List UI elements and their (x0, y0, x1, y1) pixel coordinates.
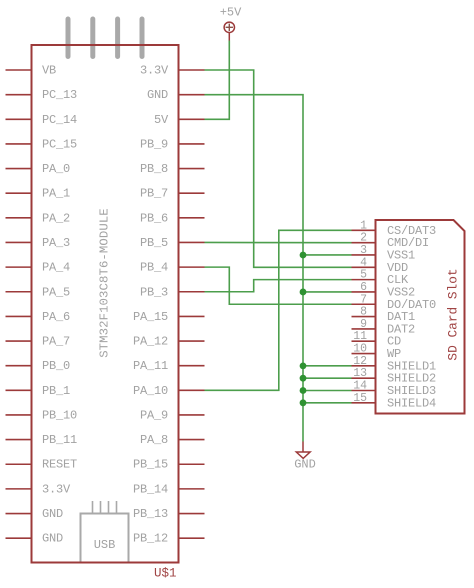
pin PB_3 (right 10) (140, 285, 205, 299)
pin PA_1 (left 6) (6, 187, 71, 201)
SD pin 15 SHIELD4 (352, 392, 437, 411)
SD pin 9 DAT2 (352, 318, 416, 337)
svg-text:5V: 5V (154, 113, 169, 127)
wire net 3.3V: module 3.3V to SD VDD pin 4 (205, 70, 352, 267)
junction on GND net at VSS1 (300, 252, 307, 259)
junction on GND net at SHIELD4 (300, 399, 307, 406)
svg-text:PA_4: PA_4 (42, 261, 70, 275)
svg-text:GND: GND (294, 458, 316, 472)
svg-text:13: 13 (353, 367, 367, 380)
ground symbol GND (296, 442, 310, 459)
svg-text:PC_13: PC_13 (42, 88, 77, 102)
svg-text:PA_10: PA_10 (133, 384, 168, 398)
SD pin 12 SHIELD1 (352, 355, 437, 374)
+5V supply symbol P1 (224, 22, 234, 40)
SD pin 13 SHIELD2 (352, 367, 437, 386)
svg-text:PB_7: PB_7 (140, 187, 168, 201)
wire GND branch to SHIELD4 (303, 402, 352, 404)
pin PB_6 (right 7) (140, 211, 205, 225)
pin PB_10 (left 15) (6, 408, 78, 422)
svg-text:SHIELD4: SHIELD4 (387, 396, 436, 410)
svg-text:PA_11: PA_11 (133, 359, 168, 373)
pin VB (left 1) (6, 64, 57, 78)
wire net CLK: PB_3 to SD pin 5 (205, 280, 352, 292)
pin PA_15 (right 11) (133, 310, 205, 324)
pin 3.3V (left 18) (6, 482, 72, 496)
pin GND (left 19) (6, 507, 64, 521)
pin PA_5 (left 10) (6, 285, 71, 299)
pin PB_15 (right 17) (133, 458, 205, 472)
pin PA_0 (left 5) (6, 162, 71, 176)
pin PB_8 (right 5) (140, 162, 205, 176)
svg-text:VB: VB (42, 64, 56, 78)
wire net CS/DAT3: PA_10 to SD pin 1 (205, 230, 352, 390)
pin GND (left 20) (6, 532, 64, 546)
svg-text:PB_6: PB_6 (140, 211, 168, 225)
svg-text:SD Card Slot: SD Card Slot (446, 268, 461, 360)
SD pin 1 CS/DAT3 (352, 219, 437, 238)
svg-text:14: 14 (353, 380, 367, 393)
svg-text:8: 8 (360, 306, 367, 319)
svg-text:12: 12 (353, 355, 367, 368)
SD pin 5 CLK (352, 269, 410, 288)
svg-text:PA_1: PA_1 (42, 187, 70, 201)
pin RESET (left 17) (6, 458, 78, 472)
wire net CMD/DI: PB_5 to SD pin 2 (205, 241, 352, 243)
svg-text:9: 9 (360, 318, 367, 331)
svg-text:PB_3: PB_3 (140, 285, 168, 299)
SD pin 8 DAT1 (352, 306, 416, 325)
svg-text:PB_13: PB_13 (133, 507, 168, 521)
pin PB_11 (left 16) (6, 433, 78, 447)
svg-text:PB_14: PB_14 (133, 482, 168, 496)
module U$1 body (32, 45, 179, 563)
pin PB_1 (left 14) (6, 384, 71, 398)
pin PB_7 (right 6) (140, 187, 205, 201)
pin PA_10 (right 14) (133, 384, 205, 398)
svg-text:5: 5 (360, 269, 367, 282)
SD pin 4 VDD (352, 256, 409, 275)
USB connector graphic (81, 501, 129, 563)
svg-text:PA_9: PA_9 (140, 408, 168, 422)
pin PA_8 (right 16) (140, 433, 205, 447)
wire net DO/DAT0: PB_4 to SD pin 7 (205, 267, 352, 304)
pin GND (right 2) (147, 88, 205, 102)
pin PA_11 (right 13) (133, 359, 205, 373)
svg-text:PA_3: PA_3 (42, 236, 70, 250)
svg-text:3: 3 (360, 244, 367, 257)
wire GND branch to SHIELD1 (303, 365, 352, 367)
SD pin 3 VSS1 (352, 244, 416, 262)
pin PB_0 (left 13) (6, 359, 71, 373)
svg-text:11: 11 (353, 330, 367, 343)
svg-text:PB_11: PB_11 (42, 433, 77, 447)
pin PB_9 (right 4) (140, 137, 205, 151)
svg-text:3.3V: 3.3V (42, 482, 71, 496)
svg-text:GND: GND (42, 532, 63, 546)
SD pin 10 WP (352, 343, 402, 362)
svg-text:PB_9: PB_9 (140, 137, 168, 151)
svg-text:3.3V: 3.3V (140, 64, 169, 78)
pin PB_13 (right 19) (133, 507, 205, 521)
SD pin 11 CD (352, 330, 402, 349)
svg-text:PB_4: PB_4 (140, 261, 168, 275)
pin 3.3V (right 1) (140, 64, 205, 78)
svg-text:1: 1 (360, 219, 367, 232)
svg-text:PA_12: PA_12 (133, 335, 168, 349)
svg-text:PB_5: PB_5 (140, 236, 168, 250)
pin PC_15 (left 4) (6, 137, 78, 151)
pin PC_13 (left 2) (6, 88, 78, 102)
SD card slot body (376, 220, 465, 414)
pin PA_9 (right 15) (140, 408, 205, 422)
svg-text:4: 4 (360, 256, 367, 269)
svg-text:PB_12: PB_12 (133, 532, 168, 546)
svg-text:USB: USB (94, 538, 116, 552)
svg-text:PB_8: PB_8 (140, 162, 168, 176)
SD pin 2 CMD/DI (352, 232, 430, 251)
wire GND branch to SHIELD2 (303, 377, 352, 379)
svg-text:PC_15: PC_15 (42, 137, 77, 151)
svg-text:PC_14: PC_14 (42, 113, 77, 127)
wire net GND: module GND down to ground symbol (205, 95, 304, 442)
junction on GND net at SHIELD2 (300, 375, 307, 382)
svg-text:PA_0: PA_0 (42, 162, 70, 176)
pin PA_2 (left 7) (6, 211, 71, 225)
svg-text:PA_5: PA_5 (42, 285, 70, 299)
pin PA_3 (left 8) (6, 236, 71, 250)
pin PA_7 (left 12) (6, 335, 71, 349)
pin PB_14 (right 18) (133, 482, 205, 496)
svg-text:GND: GND (147, 88, 168, 102)
svg-text:PB_10: PB_10 (42, 408, 77, 422)
svg-text:STM32F103C8T6-MODULE: STM32F103C8T6-MODULE (98, 208, 112, 358)
SD pin 7 DO/DAT0 (352, 293, 437, 312)
junction on GND net at VSS2 (300, 289, 307, 296)
svg-text:RESET: RESET (42, 458, 77, 472)
junction on GND net at SHIELD1 (300, 362, 307, 369)
wire GND branch to VSS2 (303, 291, 352, 293)
pin PA_6 (left 11) (6, 310, 71, 324)
wire GND branch to SHIELD3 (303, 390, 352, 392)
svg-text:PB_0: PB_0 (42, 359, 70, 373)
svg-text:15: 15 (353, 392, 367, 405)
wire GND branch to VSS1 (303, 254, 352, 256)
svg-text:GND: GND (42, 507, 63, 521)
junction on GND net at SHIELD3 (300, 387, 307, 394)
SD pin 14 SHIELD3 (352, 380, 437, 399)
svg-text:7: 7 (360, 293, 367, 306)
svg-text:U$1: U$1 (154, 567, 177, 581)
svg-text:PA_7: PA_7 (42, 335, 70, 349)
pin PA_4 (left 9) (6, 261, 71, 275)
pin PB_5 (right 8) (140, 236, 205, 250)
svg-text:PA_2: PA_2 (42, 211, 70, 225)
pin PA_12 (right 12) (133, 335, 205, 349)
svg-text:PB_15: PB_15 (133, 458, 168, 472)
svg-text:PA_15: PA_15 (133, 310, 168, 324)
svg-text:PB_1: PB_1 (42, 384, 70, 398)
pin 5V (right 3) (154, 113, 205, 127)
pin PB_12 (right 20) (133, 532, 205, 546)
svg-text:PA_6: PA_6 (42, 310, 70, 324)
svg-text:2: 2 (360, 232, 367, 245)
svg-text:PA_8: PA_8 (140, 433, 168, 447)
SD pin 6 VSS2 (352, 281, 416, 300)
svg-text:+5V: +5V (220, 6, 242, 20)
svg-text:10: 10 (353, 343, 367, 356)
svg-text:6: 6 (360, 281, 367, 294)
wire net +5V: supply to 5V pin (205, 41, 230, 120)
pin PC_14 (left 3) (6, 113, 78, 127)
pin PB_4 (right 9) (140, 261, 205, 275)
module U$1 header pin bars (68, 19, 142, 57)
